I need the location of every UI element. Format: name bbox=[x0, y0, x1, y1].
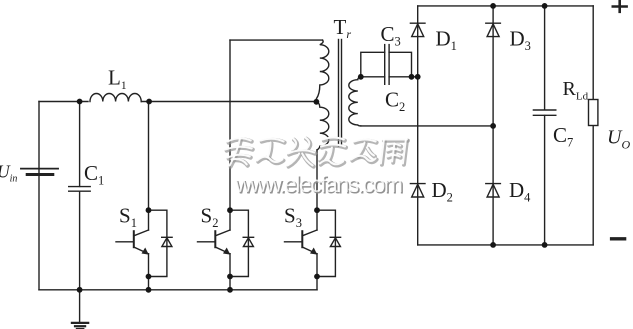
load leg wire bbox=[592, 6, 594, 100]
node bridge right leg mid bbox=[490, 123, 496, 129]
svg-text:S1: S1 bbox=[119, 204, 137, 231]
wire C2 main bbox=[361, 76, 385, 78]
svg-text:RLd: RLd bbox=[563, 78, 589, 103]
diode D2 bbox=[410, 183, 425, 185]
svg-text:C1: C1 bbox=[84, 161, 104, 188]
svg-text:D4: D4 bbox=[509, 178, 531, 205]
node S1 top bbox=[146, 207, 152, 213]
node L1 right / S1 top wire bbox=[146, 99, 152, 105]
wire left rail vertical bbox=[38, 102, 40, 290]
node top wire D3 bbox=[490, 3, 496, 9]
node rail S1 bbox=[146, 287, 152, 293]
diode (S3 antiparallel) bbox=[317, 210, 335, 276]
battery U_in bbox=[21, 168, 58, 170]
diode (S2 antiparallel) bbox=[230, 210, 248, 276]
svg-text:D3: D3 bbox=[510, 27, 531, 54]
svg-text:L1: L1 bbox=[108, 66, 127, 93]
diode D4 bbox=[486, 183, 501, 185]
node C3 branch rejoin bbox=[409, 74, 415, 80]
bridge top wire bbox=[418, 5, 594, 7]
C7 leg wire bbox=[544, 6, 546, 110]
transistor S3 bbox=[316, 150, 318, 230]
wire bottom rail bbox=[39, 289, 317, 291]
svg-text:www.elecfans.com: www.elecfans.com bbox=[234, 171, 402, 197]
capacitor C2/C3 plates bbox=[384, 45, 386, 85]
node rail S2 bbox=[227, 287, 233, 293]
diode D1 bbox=[410, 22, 425, 24]
svg-text:D2: D2 bbox=[432, 178, 453, 205]
node bottom wire D4 bbox=[490, 242, 496, 248]
svg-text:Tr: Tr bbox=[334, 15, 352, 41]
- terminal bbox=[612, 237, 625, 240]
wire C3 branch bbox=[361, 52, 385, 77]
watermark url bbox=[234, 171, 403, 199]
node C1 top bbox=[77, 99, 83, 105]
node S1 bottom bbox=[146, 274, 152, 280]
ground bbox=[79, 290, 81, 323]
svg-text:S3: S3 bbox=[284, 204, 302, 231]
inductor L1 bbox=[90, 93, 141, 101]
svg-text:UO: UO bbox=[607, 127, 630, 152]
node bridge left leg mid bbox=[415, 74, 421, 80]
node S2 top bbox=[227, 207, 233, 213]
node S3 bottom bbox=[314, 274, 320, 280]
transformer T_r primary top half bbox=[316, 40, 328, 102]
diode D3 bbox=[486, 22, 501, 24]
capacitor C1 bbox=[79, 102, 81, 187]
wire L1 to transformer tap bbox=[141, 101, 316, 103]
transformer core bbox=[338, 40, 340, 147]
+ terminal bbox=[613, 5, 627, 8]
svg-text:C7: C7 bbox=[553, 123, 573, 150]
node S3 top bbox=[314, 207, 320, 213]
node secondary top bbox=[358, 74, 364, 80]
node transformer tap bbox=[314, 99, 320, 105]
node top wire C7 bbox=[542, 3, 548, 9]
wire S2 top to transformer bbox=[230, 39, 323, 41]
transformer T_r primary bottom half bbox=[316, 102, 328, 150]
bridge D3/D4 leg bbox=[492, 6, 494, 245]
node bottom wire C7 bbox=[542, 242, 548, 248]
diode (S1 antiparallel) bbox=[149, 210, 167, 276]
watermark chinese bbox=[224, 138, 409, 167]
resistor R_Ld bbox=[589, 100, 598, 126]
transistor S2 bbox=[229, 40, 231, 230]
svg-text:D1: D1 bbox=[436, 27, 457, 54]
svg-text:Uin: Uin bbox=[0, 161, 17, 184]
svg-text:S2: S2 bbox=[201, 204, 219, 231]
bridge left leg bbox=[417, 6, 419, 245]
wire secondary bottom to bridge bbox=[361, 125, 493, 127]
transformer T_r secondary bbox=[349, 77, 361, 126]
node rail C1 bbox=[77, 287, 83, 293]
transistor S1 bbox=[148, 102, 150, 231]
capacitor C7 bbox=[533, 109, 555, 111]
wire top-left horizontal bbox=[39, 101, 88, 103]
svg-text:C2: C2 bbox=[385, 87, 405, 114]
node S2 bottom bbox=[227, 274, 233, 280]
bridge bottom wire bbox=[418, 244, 594, 246]
svg-text:C3: C3 bbox=[381, 22, 401, 49]
